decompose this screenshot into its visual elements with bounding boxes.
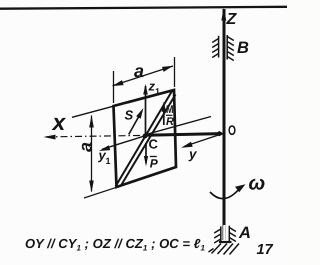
label R bar bbox=[166, 114, 173, 116]
bar OC bbox=[145, 134, 221, 136]
axis z arrowhead bbox=[221, 8, 226, 21]
svg-text:S: S bbox=[125, 108, 134, 123]
axis x line bbox=[72, 106, 113, 117]
svg-text:1: 1 bbox=[106, 156, 111, 166]
node C bbox=[143, 134, 148, 139]
svg-text:P: P bbox=[150, 157, 159, 171]
square plate bbox=[114, 90, 177, 187]
svg-text:B: B bbox=[237, 39, 249, 57]
svg-text:A: A bbox=[238, 224, 251, 242]
force R at point M on rod bbox=[163, 105, 165, 125]
shaft AB (axis of rotation) bbox=[223, 9, 226, 240]
axis z1 from C bbox=[145, 86, 147, 137]
axis y from O bbox=[184, 135, 220, 147]
svg-text:OY // CY1 ; OZ // CZ1 ; OC = ℓ: OY // CY1 ; OZ // CZ1 ; OC = ℓ1 bbox=[25, 236, 205, 253]
svg-text:a: a bbox=[76, 142, 96, 152]
bearing A bbox=[223, 225, 225, 242]
svg-text:M: M bbox=[166, 104, 174, 116]
axis y1 from C with direction arrow bbox=[102, 136, 146, 150]
svg-text:R: R bbox=[166, 116, 174, 128]
line from C to upper right bbox=[146, 117, 211, 135]
svg-text:17: 17 bbox=[257, 242, 274, 258]
bearing B bbox=[212, 35, 234, 61]
svg-text:O: O bbox=[228, 122, 236, 138]
label P bar bbox=[150, 156, 157, 158]
top border line bbox=[0, 7, 287, 9]
node O junction bbox=[217, 131, 224, 136]
svg-text:a: a bbox=[134, 61, 144, 81]
ground hatching under A bbox=[209, 244, 240, 255]
svg-text:ω: ω bbox=[249, 173, 266, 195]
force S on plate bbox=[129, 111, 142, 134]
bearing A cup bbox=[219, 241, 232, 243]
svg-text:x: x bbox=[51, 109, 67, 135]
svg-text:Z: Z bbox=[226, 11, 238, 28]
svg-text:C: C bbox=[149, 137, 159, 152]
svg-text:1: 1 bbox=[155, 87, 160, 97]
omega rotation arc bbox=[210, 188, 240, 199]
svg-text:y: y bbox=[188, 147, 198, 162]
dimension a (top) bbox=[113, 57, 175, 103]
rod along diagonal (double line) bbox=[116, 91, 173, 187]
force P at C bbox=[145, 143, 147, 163]
dimension a (left) bbox=[91, 116, 93, 192]
axis y1 (dash-dot) with arrow bbox=[46, 135, 145, 137]
extension line bottom left bbox=[84, 187, 117, 198]
